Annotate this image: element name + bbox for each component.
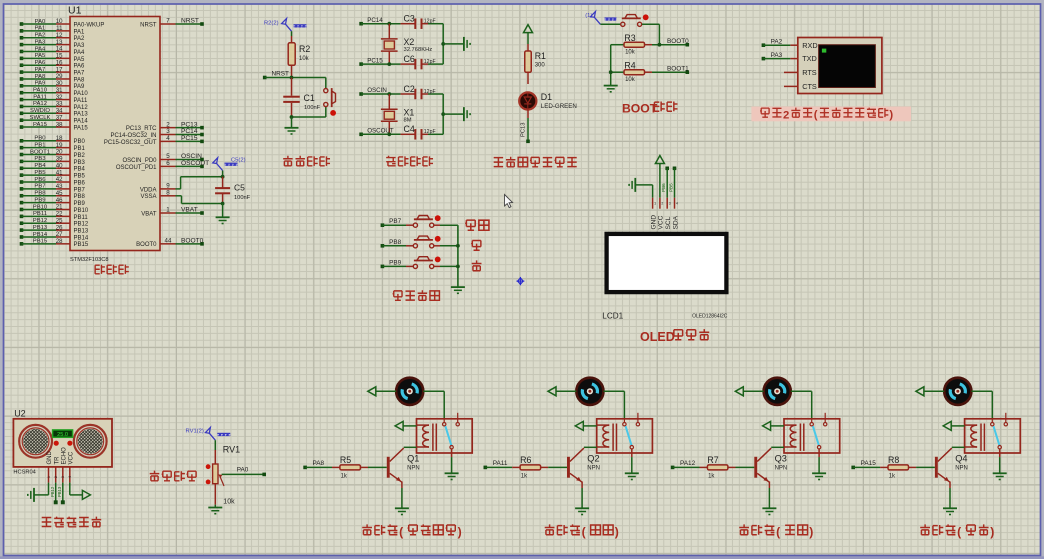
chip U1 left pin SWDIO (34) (20, 108, 89, 118)
label banner 串口2窗口（模拟语音识别） (751, 107, 911, 122)
svg-text:PB2: PB2 (74, 153, 86, 159)
wire motor Q4 to relay common (971, 391, 992, 419)
OLED pin labels GND VCC SCL SDA (650, 215, 679, 230)
svg-text:PB4: PB4 (34, 163, 46, 169)
svg-text:PB14: PB14 (33, 232, 48, 238)
svg-text:PB15: PB15 (33, 239, 48, 245)
label BOOT电路 (622, 102, 677, 116)
svg-text:300: 300 (535, 63, 546, 69)
chip U1 left pin PB1 (19) (20, 142, 86, 152)
wire PA3 to TXD (762, 52, 791, 61)
svg-text:R4: R4 (624, 61, 635, 71)
svg-text:10k: 10k (625, 77, 636, 83)
svg-text:SWCLK: SWCLK (30, 115, 51, 121)
svg-text:BOOT0: BOOT0 (181, 237, 204, 244)
svg-text:28: 28 (56, 238, 63, 245)
capacitor C3 12pF (401, 14, 444, 29)
svg-text:PB1: PB1 (74, 146, 86, 152)
svg-text:PB5: PB5 (34, 170, 46, 176)
power flag R2(2) (264, 18, 307, 31)
svg-text:3: 3 (669, 202, 671, 206)
resistor R5 1k (332, 455, 387, 479)
push button PB8 (381, 236, 458, 248)
chip U1 right pin NRST (7) (140, 18, 204, 29)
svg-text:OSCIN_PD0: OSCIN_PD0 (122, 158, 157, 164)
svg-text:PB7: PB7 (74, 187, 86, 193)
relay RL3 coil (784, 424, 804, 451)
svg-text:Q1: Q1 (407, 454, 419, 464)
wire OLED SCL terminal (661, 167, 669, 198)
chip U1 left pin PA3 (13) (20, 39, 85, 49)
ground reset (285, 117, 299, 134)
wire U2 TR net (50, 483, 58, 505)
resistor R4 10k (611, 61, 689, 84)
wire Q1 emitter to ground (401, 488, 403, 508)
svg-text:C5(2): C5(2) (231, 158, 246, 164)
label 程序运行指示灯 (494, 157, 577, 167)
label 湿度调节 (150, 471, 196, 481)
wire PC13 to LED (521, 110, 530, 144)
svg-text:PA5: PA5 (35, 53, 46, 59)
svg-text:25.0: 25.0 (57, 432, 68, 438)
chip U1 left pin PA5 (15) (20, 53, 85, 63)
chip U1 left pin PB11 (22) (20, 211, 89, 221)
svg-text:R7: R7 (707, 455, 718, 465)
svg-text:BOOT0: BOOT0 (667, 38, 689, 45)
svg-text:): ) (990, 525, 994, 539)
svg-text:PA10: PA10 (74, 91, 89, 97)
svg-text:OLED: OLED (640, 330, 675, 344)
wire C1 bottom node (290, 115, 326, 119)
svg-text:R3: R3 (624, 33, 635, 43)
chip U1 left pin PA9 (30) (20, 80, 85, 90)
svg-text:NPN: NPN (407, 466, 420, 472)
chip U1 left pin PB14 (27) (20, 231, 89, 241)
svg-text:C3: C3 (404, 14, 415, 24)
chip U1 right pin PC15-OSC32_OUT (4) (104, 135, 204, 146)
svg-text:SWDIO: SWDIO (30, 108, 50, 114)
label 继电器(拖地) (545, 524, 619, 539)
svg-text:GND: GND (47, 451, 53, 465)
power flag (1) BOOT (585, 12, 616, 25)
wire relay Q4 contact to ground (999, 449, 1001, 473)
resistor R7 1k (700, 455, 755, 479)
svg-text:PB6: PB6 (74, 180, 86, 186)
chip U1 left pin PB5 (41) (20, 169, 86, 179)
svg-text:PA6: PA6 (74, 64, 86, 70)
serial pin stubs (784, 45, 798, 86)
label 设置 (465, 220, 489, 230)
wire relay Q2 contact to ground (631, 449, 633, 473)
chip U1 left pin PB8 (45) (20, 190, 86, 200)
chip U1 right pin BOOT0 (44) (136, 237, 204, 248)
svg-text:PA12: PA12 (33, 101, 47, 107)
label 继电器(车辆运行) (362, 524, 461, 539)
power arrow relay Q3 coil (763, 421, 784, 430)
chip U1 left pin PB15 (28) (20, 238, 89, 248)
chip U1 left pin PB9 (46) (20, 197, 86, 207)
svg-text:Q4: Q4 (955, 454, 967, 464)
svg-text:VDDA: VDDA (140, 187, 157, 193)
svg-text:CTS: CTS (802, 82, 817, 91)
svg-text:PA11: PA11 (74, 98, 88, 104)
svg-text:PB5: PB5 (74, 174, 86, 180)
wire PA2 to RXD (762, 38, 791, 47)
U2 transducer left (19, 425, 52, 458)
power arrow relay Q4 coil (943, 421, 964, 430)
chip U1 right pin OSCIN_PD0 (5) (122, 153, 203, 164)
relay RL2 box (597, 419, 653, 453)
svg-text:RXD: RXD (802, 41, 817, 50)
label 继电器(加湿) (920, 524, 994, 539)
relay RL4 coil (965, 424, 985, 451)
chip U1 left pin PA8 (29) (20, 73, 85, 83)
U2 transducer right (74, 425, 107, 458)
ground Q3 (762, 508, 776, 514)
svg-text:4: 4 (676, 202, 678, 206)
chip U1 left pin PA6 (16) (20, 59, 85, 69)
chip U1 right pin PC13_RTC (2) (126, 121, 204, 132)
chip U1 left pin PA1 (11) (20, 25, 85, 35)
motor M3 (764, 378, 791, 405)
svg-text:1k: 1k (521, 473, 528, 479)
svg-text:PB9: PB9 (74, 201, 86, 207)
chip U1 left pin PA11 (32) (20, 94, 88, 104)
svg-text:C5: C5 (234, 183, 245, 193)
ground OLED GND (629, 178, 653, 198)
power arrow motor Q3 (735, 387, 763, 396)
ground U2 (28, 488, 34, 502)
svg-text:PB13: PB13 (57, 486, 62, 497)
svg-text:PA2: PA2 (35, 33, 46, 39)
chip U1 right pin VBAT (1) (141, 207, 204, 218)
svg-text:C1: C1 (304, 93, 315, 103)
serial terminal box (798, 38, 882, 94)
ground X1 (464, 107, 470, 121)
svg-text:PB3: PB3 (34, 156, 46, 162)
label 主芯片 (95, 265, 129, 274)
svg-text:TR: TR (54, 456, 60, 465)
wire motor Q2 to relay common (604, 391, 625, 419)
chip U1 left pin PA10 (31) (20, 87, 89, 97)
svg-text:NPN: NPN (955, 466, 968, 472)
power arrow motor Q4 (916, 387, 944, 396)
svg-text:100nF: 100nF (234, 195, 251, 201)
svg-text:PC13_RTC: PC13_RTC (126, 126, 157, 132)
svg-text:RV1: RV1 (223, 445, 240, 455)
label 复位电路 (283, 156, 330, 166)
svg-text:44: 44 (165, 237, 172, 244)
svg-text:PA0: PA0 (237, 467, 249, 474)
keys common bus wire (456, 225, 460, 287)
ground relay Q4 (993, 473, 1007, 479)
potentiometer RV1 10k (206, 440, 240, 505)
svg-text:PB12: PB12 (74, 222, 89, 228)
chip U1 left pin PB6 (42) (20, 176, 86, 186)
wire PA0 from RV1 wiper (222, 467, 266, 477)
svg-text:PB6: PB6 (661, 183, 666, 192)
svg-text:12pF: 12pF (424, 129, 436, 135)
svg-text:PA15: PA15 (861, 460, 877, 467)
svg-text:10k: 10k (625, 50, 636, 56)
wire C5 top node (221, 171, 225, 179)
node OSCIN wire (359, 87, 400, 96)
svg-text:PA2: PA2 (771, 38, 783, 45)
svg-text:R6: R6 (520, 455, 531, 465)
svg-text:OSCOUT: OSCOUT (367, 128, 394, 135)
svg-text:PB8: PB8 (34, 191, 46, 197)
wire relay Q1 contact to ground (451, 449, 453, 473)
svg-text:3: 3 (61, 476, 65, 478)
wire relay Q3 contact to ground (818, 449, 820, 473)
svg-text:PB15: PB15 (74, 242, 89, 248)
svg-text:VBAT: VBAT (181, 207, 198, 214)
svg-text:PB7: PB7 (389, 218, 402, 225)
svg-text:PA15: PA15 (33, 122, 48, 128)
svg-text:PB0: PB0 (34, 136, 46, 142)
transistor Q1 NPN (387, 447, 420, 488)
power arrow relay Q2 coil (575, 421, 596, 430)
svg-text:PB9: PB9 (34, 197, 45, 203)
power arrow OLED VCC (655, 156, 664, 164)
svg-text:): ) (458, 525, 462, 539)
wire PA8 input (303, 460, 332, 469)
svg-text:12pF: 12pF (424, 19, 436, 25)
relay RL1 coil (417, 424, 437, 451)
svg-text:PB13: PB13 (33, 225, 48, 231)
chip U1 left pin PB12 (25) (20, 217, 89, 227)
svg-text:BOOT: BOOT (622, 102, 658, 116)
svg-text:PC14: PC14 (367, 17, 383, 24)
svg-text:PB8: PB8 (74, 194, 86, 200)
resistor R1 300 (525, 33, 546, 84)
chip U1 left pin PB3 (39) (20, 156, 86, 166)
svg-text:8: 8 (166, 189, 170, 196)
ground keys (451, 287, 465, 293)
chip U1 left pin PB0 (18) (20, 135, 86, 145)
svg-text:1: 1 (47, 476, 51, 478)
wire BOOT left bus (609, 45, 613, 86)
power arrow motor Q2 (548, 387, 576, 396)
ultrasonic module U2 HCSR04 body (13, 409, 112, 476)
svg-text:VBAT: VBAT (141, 211, 157, 217)
capacitor C4 12pF (401, 124, 444, 139)
relay RL2 coil (597, 424, 617, 451)
svg-text:VCC: VCC (68, 451, 74, 464)
svg-text:PA9: PA9 (35, 81, 46, 87)
label 晶振电路 (386, 156, 433, 166)
svg-text:PB5: PB5 (668, 183, 673, 192)
svg-text:VCC: VCC (658, 215, 665, 229)
svg-text:4: 4 (68, 476, 72, 478)
label 继电器(扫地) (739, 524, 813, 539)
svg-text:PB11: PB11 (33, 211, 47, 217)
wire U2 GND to ground (34, 483, 49, 495)
svg-text:PA12: PA12 (680, 460, 696, 467)
wire Q2 emitter to ground (581, 488, 583, 508)
wire U2 ECHO net (57, 483, 65, 505)
svg-text:Q2: Q2 (587, 454, 599, 464)
wire C5 bottom to ground (222, 204, 224, 218)
OLED pin stubs 1-4 (653, 198, 678, 209)
ground Q2 (575, 508, 589, 514)
svg-text:R2: R2 (299, 44, 310, 54)
svg-text:NPN: NPN (587, 466, 600, 472)
svg-text:TXD: TXD (802, 54, 817, 63)
svg-text:1: 1 (166, 207, 170, 214)
svg-text:PA0-WKUP: PA0-WKUP (74, 22, 105, 28)
ground C5 (216, 217, 230, 223)
power flag C5(2) (213, 158, 246, 171)
svg-text:PB7: PB7 (34, 184, 45, 190)
svg-text:PB10: PB10 (74, 208, 89, 214)
svg-text:PA12: PA12 (74, 105, 89, 111)
svg-text:PA4: PA4 (35, 46, 46, 52)
chip U1 right pin VSSA (8) (140, 189, 222, 203)
chip U1 left pin PA12 (33) (20, 101, 89, 111)
OLED display LCD1 (602, 234, 727, 321)
svg-text:): ) (809, 525, 813, 539)
svg-text:12pF: 12pF (424, 89, 436, 95)
svg-text:PC15: PC15 (367, 57, 383, 64)
transistor Q2 NPN (567, 447, 600, 488)
wire U2 VCC to power arrow (70, 483, 91, 500)
wire OLED VCC (659, 164, 661, 198)
svg-text:PA1: PA1 (74, 29, 86, 35)
svg-text:STM32F103C8: STM32F103C8 (70, 257, 109, 263)
svg-text:PC13: PC13 (521, 122, 527, 137)
svg-text:PA8: PA8 (35, 74, 46, 80)
svg-text:PB11: PB11 (74, 215, 89, 221)
transistor Q3 NPN (754, 447, 787, 488)
svg-text:1: 1 (654, 202, 656, 206)
U2 display 25.0 (53, 430, 73, 438)
svg-text:R1: R1 (535, 51, 546, 61)
svg-text:PA15: PA15 (74, 125, 89, 131)
svg-text:1k: 1k (708, 473, 715, 479)
svg-text:PA11: PA11 (33, 94, 47, 100)
relay RL4 switch (991, 413, 1008, 449)
ground RV1 (208, 505, 222, 514)
svg-text:BOOT1: BOOT1 (30, 149, 50, 155)
svg-text:X2: X2 (404, 37, 415, 47)
BOOT push button (600, 14, 659, 44)
chip U1 left pin PA7 (17) (20, 66, 85, 76)
resistor R6 1k (512, 455, 567, 479)
svg-text:PB8: PB8 (389, 239, 402, 246)
node PC15 wire (359, 57, 400, 66)
svg-text:OSCIN: OSCIN (367, 87, 387, 94)
svg-text:8M: 8M (404, 117, 412, 123)
svg-text:PA8: PA8 (313, 460, 325, 467)
svg-text:PA2: PA2 (74, 36, 86, 42)
svg-text:PA7: PA7 (74, 70, 86, 76)
svg-text:PA7: PA7 (35, 67, 46, 73)
wire motor Q1 to relay common (423, 391, 444, 419)
svg-text:12pF: 12pF (424, 59, 436, 65)
push button PB9 (381, 257, 458, 269)
wire right bus X1 (441, 94, 464, 134)
crystal X1 8M (381, 94, 414, 134)
U2 pin stubs (47, 467, 72, 483)
svg-text:10k: 10k (223, 499, 235, 506)
label 超声波模块 (42, 517, 102, 527)
chip U1 left pin PA4 (14) (20, 46, 85, 56)
svg-text:VSSA: VSSA (140, 194, 156, 200)
chip U1 right pin PC14-OSC32_IN (3) (110, 128, 203, 139)
svg-text:6: 6 (166, 160, 170, 167)
svg-text:BOOT1: BOOT1 (667, 66, 689, 73)
svg-text:PA1: PA1 (35, 26, 46, 32)
wire PA11 input (484, 460, 513, 469)
svg-text:PB4: PB4 (74, 167, 86, 173)
svg-text:PB13: PB13 (74, 229, 89, 235)
wire Q3 emitter to ground (768, 488, 770, 508)
motor M1 (396, 378, 423, 405)
chip U1 left pin PB4 (40) (20, 162, 86, 172)
mouse cursor (505, 195, 513, 208)
capacitor C6 12pF (401, 54, 444, 69)
label 加 (471, 241, 481, 251)
svg-text:R5: R5 (340, 455, 351, 465)
svg-text:RV1(2): RV1(2) (186, 429, 204, 435)
svg-text:PA3: PA3 (35, 39, 46, 45)
label OLED显示屏 (640, 329, 709, 344)
svg-text:1k: 1k (889, 473, 896, 479)
resistor R2 10k (288, 31, 310, 77)
svg-text:7: 7 (166, 18, 170, 25)
svg-text:NRST: NRST (140, 22, 157, 28)
svg-text:PA8: PA8 (74, 77, 86, 83)
svg-text:PA14: PA14 (74, 119, 89, 125)
svg-text:PA3: PA3 (74, 43, 86, 49)
chip U1 body (STM32F103C8) (68, 5, 160, 264)
ground relay Q1 (445, 473, 459, 479)
svg-text:PA11: PA11 (493, 460, 508, 467)
chip U1 left pin PA15 (38) (20, 121, 89, 131)
motor M4 (944, 378, 971, 405)
resistor R8 1k (880, 455, 935, 479)
crystal X2 32.768KHz (381, 24, 432, 64)
svg-text:PA0: PA0 (35, 19, 46, 25)
wire PA15 input (851, 460, 880, 469)
node NRST wire (263, 71, 326, 80)
svg-text:PB12: PB12 (50, 486, 55, 497)
svg-text:2: 2 (661, 202, 663, 206)
svg-text:2: 2 (783, 109, 789, 121)
chip U1 left pin SWCLK (37) (20, 114, 89, 124)
ground Q4 (943, 508, 957, 514)
svg-text:PA6: PA6 (35, 60, 46, 66)
ground X2 (464, 37, 470, 51)
svg-text:BOOT0: BOOT0 (136, 242, 157, 248)
chip U1 left pin PB13 (26) (20, 224, 89, 234)
wire OLED SDA terminal (668, 167, 676, 198)
svg-text:ECHO: ECHO (61, 447, 67, 465)
svg-text:PB0: PB0 (74, 139, 86, 145)
svg-text:NRST: NRST (181, 18, 199, 25)
reset push button (324, 78, 336, 118)
svg-text:X1: X1 (404, 107, 415, 117)
svg-text:NPN: NPN (775, 466, 788, 472)
relay RL1 switch (443, 413, 460, 449)
svg-text:U1: U1 (68, 5, 82, 17)
svg-text:SCL: SCL (665, 216, 672, 229)
wire Q4 emitter to ground (949, 488, 951, 508)
chip U1 left pin PB10 (21) (20, 204, 89, 214)
power flag RV1(2) (186, 427, 231, 440)
svg-text:1k: 1k (341, 473, 348, 479)
